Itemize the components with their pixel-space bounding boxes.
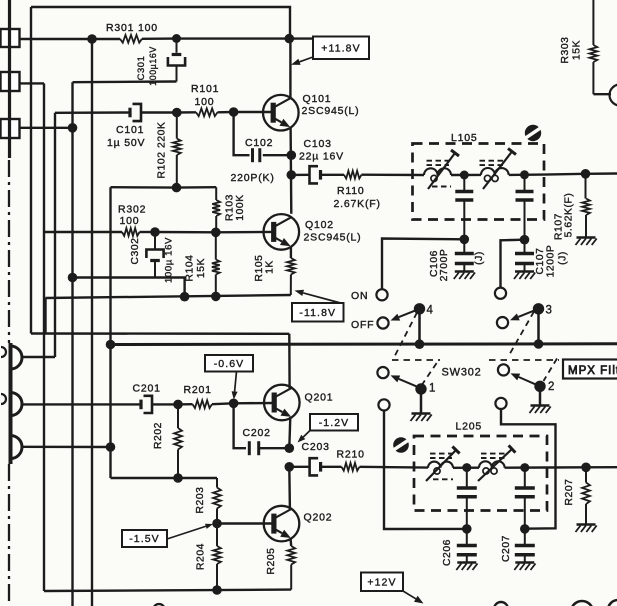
svg-text:100: 100	[120, 215, 140, 227]
capacitor C202	[249, 441, 258, 455]
inductor L105a slug arrow	[428, 150, 459, 189]
bottom edge fragment 2	[571, 601, 593, 606]
switch pole 3 wiper	[510, 309, 539, 321]
coil T201 bump 1	[11, 346, 22, 369]
inductor L205a core lower	[433, 478, 453, 480]
capacitor C101	[130, 104, 141, 121]
label Q201	[305, 392, 334, 404]
wire C203 to R210	[321, 466, 342, 468]
label R105 value	[265, 260, 276, 274]
inductor L205b core	[481, 454, 505, 458]
svg-text:Q101: Q101	[303, 93, 332, 105]
svg-text:R301 100: R301 100	[106, 22, 158, 34]
label Q202	[304, 512, 333, 524]
switch contact OFF	[377, 317, 388, 328]
node coil3/busF junction	[106, 442, 116, 452]
svg-text:-1.5V: -1.5V	[129, 533, 160, 545]
wire rail to C301 node	[142, 37, 177, 40]
wire supply line y333	[31, 332, 289, 335]
svg-text:(J): (J)	[474, 251, 485, 265]
svg-text:C103: C103	[304, 138, 332, 150]
label C206	[442, 539, 453, 566]
node C201/R201/R202 junction	[173, 400, 183, 410]
svg-text:OFF: OFF	[351, 319, 374, 331]
inductor block L205 dashed box	[414, 436, 547, 511]
bottom edge fragment 0	[153, 604, 165, 606]
wire riser stub to +11.8V box	[289, 37, 313, 39]
label C207	[501, 535, 512, 562]
inductor L105b slug arrow	[483, 148, 516, 189]
label L205	[456, 421, 483, 433]
wire coil tap 3 line	[21, 446, 111, 449]
svg-text:4: 4	[427, 305, 434, 317]
label C101 value	[107, 137, 145, 149]
wire C202 right leg	[259, 447, 289, 449]
wire C106 branch to ON contact	[382, 239, 464, 290]
svg-text:C102: C102	[245, 137, 273, 149]
wire C202 left leg	[234, 403, 246, 448]
svg-text:L205: L205	[456, 421, 483, 433]
label C103	[304, 138, 332, 150]
wire to C103	[291, 174, 309, 176]
wire R202 return line	[111, 477, 218, 479]
node C102 right junction	[287, 150, 297, 160]
svg-text:-1.2V: -1.2V	[319, 417, 350, 429]
node collector riser junction	[285, 34, 295, 44]
label R107 value	[564, 193, 575, 238]
label R110	[337, 185, 365, 197]
callout -11.8V leader	[295, 290, 341, 303]
ground pole 1	[411, 414, 432, 422]
callout -1.5V box	[122, 530, 167, 547]
node pole3 junction	[534, 339, 544, 349]
connector J2 pin box	[1, 72, 20, 91]
resistor R101	[196, 108, 218, 116]
svg-text:2SC945(L): 2SC945(L)	[302, 105, 360, 117]
node R103/R104/base junction	[211, 228, 221, 238]
resistor R301	[120, 35, 142, 43]
wire J1 to node	[19, 38, 92, 40]
capacitor L105 Cb	[516, 175, 534, 240]
wire long line y344	[111, 342, 617, 346]
node R107 junction	[581, 169, 591, 179]
svg-text:15K: 15K	[572, 40, 583, 60]
wire emitter return line y297	[46, 295, 291, 298]
node L105 out junction	[520, 170, 529, 179]
label C202	[243, 427, 271, 439]
node bus F / line y344	[106, 340, 116, 350]
callout -0.6V leader	[232, 372, 238, 400]
callout +11.8V box	[313, 37, 369, 60]
wire C101 to node	[141, 111, 177, 113]
label R207	[564, 478, 575, 505]
svg-text:R303: R303	[560, 36, 571, 63]
label R102 value	[157, 122, 168, 179]
wire line y467 to right edge	[586, 466, 617, 468]
node L105 mid junction	[460, 171, 469, 180]
node C103 junction	[287, 170, 297, 180]
switch contact 2-up	[498, 364, 509, 375]
wire L105 out	[509, 173, 544, 176]
wire rail segment	[92, 38, 120, 40]
capacitor C201	[141, 396, 152, 413]
wire Q201 collector riser	[288, 334, 291, 388]
switch linkage bar right	[489, 359, 559, 361]
wire L205 mid	[453, 467, 479, 469]
ground R207	[576, 525, 597, 533]
wire pole2 ground stub	[539, 387, 542, 405]
label R302 value	[120, 215, 140, 227]
label R202	[153, 422, 164, 449]
capacitor C203	[310, 458, 321, 475]
wire Q201 emitter drop	[289, 417, 290, 448]
connector J3 pin box	[1, 119, 20, 138]
node J3/busD junction	[68, 123, 78, 133]
wire Q101 collector riser	[289, 39, 291, 99]
svg-text:C201: C201	[133, 383, 161, 395]
ground R107	[576, 238, 597, 246]
wire Q101 emitter drop	[289, 127, 292, 214]
wire C103 to R110	[321, 174, 345, 176]
node C203 junction	[285, 462, 295, 472]
inductor L205b	[479, 461, 505, 474]
svg-text:1200P: 1200P	[546, 245, 557, 278]
callout +12V box	[361, 573, 403, 592]
wire R303 to Q	[593, 93, 611, 95]
wire R201 to base node	[212, 402, 234, 405]
resistor R110	[344, 171, 362, 179]
svg-text:R103: R103	[225, 194, 236, 221]
inductor block L105 dashed box	[413, 144, 545, 220]
label C103 value	[299, 151, 344, 163]
label C106 value	[439, 249, 450, 282]
node R101/Q101 base junction	[229, 107, 239, 117]
switch linkage dash 4	[422, 360, 440, 386]
wire bus A vertical x31	[30, 7, 32, 334]
wire J2 to bus B	[19, 82, 44, 84]
switch linkage dash 2	[544, 359, 558, 382]
switch pole 2 wiper	[511, 373, 541, 386]
label R204	[196, 543, 207, 570]
wire C302 line extension	[155, 278, 185, 297]
wire bus C vertical x55	[54, 113, 56, 357]
label Q102	[305, 219, 334, 231]
capacitor C302	[146, 232, 163, 278]
svg-text:C101: C101	[116, 124, 144, 136]
svg-text:R203: R203	[195, 486, 206, 513]
wire coil tap 1 to bus C	[21, 356, 55, 358]
svg-text:2SC945(L): 2SC945(L)	[304, 232, 362, 244]
svg-text:5.62K(F): 5.62K(F)	[564, 193, 575, 238]
edge fragment arc b	[1, 394, 6, 404]
label SW302	[442, 367, 482, 379]
svg-text:R110: R110	[337, 185, 365, 197]
node C107 top junction	[520, 235, 530, 245]
label R303	[560, 36, 571, 63]
wire bus F vertical x110.5	[109, 187, 111, 478]
wire L105 to R107 node	[544, 173, 586, 176]
node busE/rail junction	[87, 34, 97, 44]
no-connection symbol 2	[392, 437, 410, 453]
wire base line to Q202	[217, 522, 274, 524]
wire pole1 ground stub	[420, 389, 423, 413]
svg-text:R101: R101	[191, 83, 219, 95]
svg-text:R210: R210	[337, 449, 365, 461]
svg-text:R105: R105	[254, 254, 265, 281]
wire C302 bottom to bus D	[73, 276, 156, 278]
capacitor L105 Ca	[455, 175, 473, 239]
callout -1.5V leader	[167, 524, 213, 539]
svg-text:3: 3	[546, 305, 553, 317]
capacitor C103	[310, 166, 321, 183]
label pole 3	[546, 305, 553, 317]
resistor R104	[212, 232, 220, 296]
svg-text:-11.8V: -11.8V	[299, 307, 336, 319]
resistor R204	[213, 524, 221, 591]
label R302	[118, 204, 146, 216]
svg-text:C203: C203	[302, 441, 330, 453]
node C202 right junction	[285, 443, 295, 453]
inductor L105a core	[427, 161, 450, 165]
wire top rail y7	[31, 7, 290, 39]
bottom edge fragment 3	[608, 600, 617, 606]
svg-text:C207: C207	[501, 535, 512, 562]
wire L205 to R207 node	[547, 466, 586, 469]
label R103	[225, 194, 236, 221]
switch contact 3-off	[497, 317, 508, 328]
wire C102 right leg	[263, 154, 292, 156]
switch pole 4	[414, 303, 425, 314]
node R201/Q201 base junction	[229, 399, 239, 409]
wire R101 to base node	[218, 111, 234, 114]
node R104 bottom junction	[211, 292, 221, 302]
label C302	[130, 237, 141, 264]
svg-text:C107: C107	[535, 247, 546, 274]
inductor L105a	[424, 168, 451, 181]
svg-text:C206: C206	[442, 539, 453, 566]
ground C107	[514, 272, 535, 280]
svg-text:100: 100	[195, 96, 215, 108]
switch pole 3	[533, 303, 544, 314]
wire C102 left leg	[234, 112, 250, 155]
inductor L105a core lower	[432, 186, 451, 188]
wire base node to Q201	[234, 402, 274, 405]
switch pole 1	[415, 383, 426, 394]
label R101	[191, 83, 219, 95]
node C207 top junction	[520, 524, 530, 534]
connector spine	[8, 0, 11, 158]
svg-text:C301: C301	[135, 56, 146, 81]
svg-text:(J): (J)	[558, 251, 569, 265]
edge fragment arc a	[1, 347, 6, 357]
capacitor C207	[515, 529, 535, 562]
svg-text:1: 1	[429, 383, 436, 395]
switch contact 3-on	[495, 288, 506, 299]
label pole 4	[427, 305, 434, 317]
wire bus B vertical x44	[43, 83, 45, 591]
capacitor C206	[457, 529, 477, 562]
resistor R105	[287, 258, 295, 295]
label ON	[351, 290, 368, 302]
callout +11.8V leader	[291, 57, 313, 65]
ground C207	[514, 563, 535, 571]
svg-text:Q202: Q202	[304, 512, 333, 524]
switch contact 1-dn	[378, 399, 389, 410]
svg-text:R201: R201	[184, 384, 212, 396]
transistor Q102	[264, 214, 300, 250]
node R102 bottom junction	[172, 183, 182, 193]
inductor L105b	[481, 168, 509, 182]
switch contact 2-dn	[495, 398, 506, 409]
wire node to R101	[177, 111, 196, 114]
svg-text:R102 220K: R102 220K	[157, 122, 168, 179]
wire rail to collector riser	[177, 37, 290, 39]
resistor R207	[582, 467, 590, 524]
wire C101 input from bus C	[55, 111, 130, 114]
wire line to right edge	[586, 172, 617, 175]
node L205 out junction	[520, 463, 529, 472]
svg-text:1K: 1K	[265, 260, 276, 274]
label R101 value	[195, 96, 215, 108]
label C102	[245, 137, 273, 149]
capacitor L205 Ca	[457, 468, 477, 529]
switch linkage dash 1	[395, 313, 418, 357]
ground C206	[456, 563, 477, 571]
wire busB97 drop	[44, 298, 46, 334]
resistor R103	[212, 187, 220, 232]
svg-text:2: 2	[548, 381, 555, 393]
resistor R202	[174, 404, 182, 478]
svg-text:2.67K(F): 2.67K(F)	[334, 198, 381, 210]
switch contact 1-up	[377, 367, 388, 378]
svg-text:100µ16V: 100µ16V	[148, 46, 158, 86]
switch pole 2	[534, 381, 545, 392]
label R201	[184, 384, 212, 396]
svg-text:2700P: 2700P	[439, 249, 450, 282]
capacitor C102	[253, 148, 260, 162]
label R303 value	[572, 40, 583, 60]
callout +12V leader	[403, 591, 424, 604]
wire contact to C206 branch	[384, 410, 467, 529]
transistor Q201	[264, 385, 300, 421]
node R203/R204/base junction	[212, 519, 222, 529]
svg-text:220P(K): 220P(K)	[231, 172, 275, 184]
svg-text:1µ 50V: 1µ 50V	[107, 137, 145, 149]
wire J3 to bus D	[19, 127, 73, 129]
label L105	[451, 132, 478, 144]
callout -11.8V box	[292, 303, 344, 322]
chassis dash-dot line upper	[8, 160, 10, 343]
wire R102 node to R103	[177, 186, 217, 189]
node C106 top junction	[460, 235, 470, 245]
wire Q102 emitter drop	[290, 247, 292, 259]
callout -1.2V leader	[298, 431, 311, 443]
ground C106	[454, 272, 475, 280]
label C101	[116, 124, 144, 136]
transistor at right edge	[610, 85, 617, 106]
chassis dash-dot line lower	[8, 464, 10, 606]
wire C302 node to base node	[155, 231, 216, 234]
label R205	[266, 547, 277, 574]
wire pole3 to y344	[537, 309, 540, 344]
svg-text:C202: C202	[243, 427, 271, 439]
svg-text:+12V: +12V	[367, 576, 396, 588]
wire contact to C207 branch	[501, 409, 556, 529]
svg-text:R205: R205	[266, 547, 277, 574]
svg-text:+11.8V: +11.8V	[321, 42, 360, 54]
label R105	[254, 254, 265, 281]
inductor L205b slug arrow	[478, 445, 515, 481]
coil T201 bump 2	[11, 393, 23, 416]
wire coil tap 2 line	[21, 403, 141, 405]
resistor R302	[122, 228, 140, 236]
wire node to R201	[178, 403, 193, 406]
resistor R210	[342, 463, 360, 471]
label R104 value	[196, 258, 207, 278]
resistor R205	[287, 546, 295, 590]
node C302 top junction	[150, 227, 160, 237]
svg-text:SW302: SW302	[442, 367, 482, 379]
label C301	[135, 56, 146, 81]
svg-text:R302: R302	[118, 204, 146, 216]
svg-text:L105: L105	[451, 132, 478, 144]
label R210	[337, 449, 365, 461]
label C203	[302, 441, 330, 453]
transistor Q202	[264, 506, 300, 542]
label R107	[554, 213, 565, 240]
svg-text:R202: R202	[153, 422, 164, 449]
resistor R107	[582, 174, 590, 237]
coil T201 winding line	[9, 343, 13, 464]
wire C107 branch to contact	[501, 240, 525, 288]
transistor Q101	[263, 95, 299, 131]
ground pole 2	[530, 406, 551, 414]
wire base line to Q102	[216, 231, 274, 234]
svg-text:ON: ON	[351, 290, 368, 302]
switch linkage bar left	[392, 359, 440, 361]
svg-text:-0.6V: -0.6V	[214, 358, 245, 370]
wire Q202 collector riser	[288, 467, 291, 509]
svg-text:Q201: Q201	[305, 392, 334, 404]
wire bus D vertical x72.5	[71, 82, 73, 606]
bottom edge fragment 1	[494, 602, 508, 606]
svg-text:15K: 15K	[196, 258, 207, 278]
svg-text:R207: R207	[564, 478, 575, 505]
switch contact ON	[376, 289, 387, 300]
label OFF	[351, 319, 374, 331]
svg-text:100K: 100K	[235, 194, 246, 220]
wire bus E vertical x92	[91, 39, 93, 606]
callout -0.6V box	[205, 355, 253, 372]
label C107 value	[546, 245, 557, 278]
label C107	[535, 247, 546, 274]
svg-text:Q102: Q102	[305, 219, 334, 231]
node C302/busD junction	[68, 273, 78, 283]
wire C201 to node	[152, 403, 178, 405]
svg-text:MPX FIlt: MPX FIlt	[568, 365, 617, 377]
wire pole4 to y344	[418, 309, 421, 344]
wire base node to Q101	[234, 111, 273, 113]
wire C301 bottom to bus D	[73, 80, 177, 83]
label C302 value	[164, 237, 175, 283]
node extension junction	[180, 292, 190, 302]
coil T201 bump 3	[11, 436, 23, 459]
switch linkage dash 3	[508, 312, 534, 358]
wire R302 to C302 node	[140, 231, 156, 233]
inductor L205a	[428, 462, 453, 475]
svg-text:22µ 16V: 22µ 16V	[299, 151, 344, 163]
capacitor C106	[455, 239, 474, 271]
